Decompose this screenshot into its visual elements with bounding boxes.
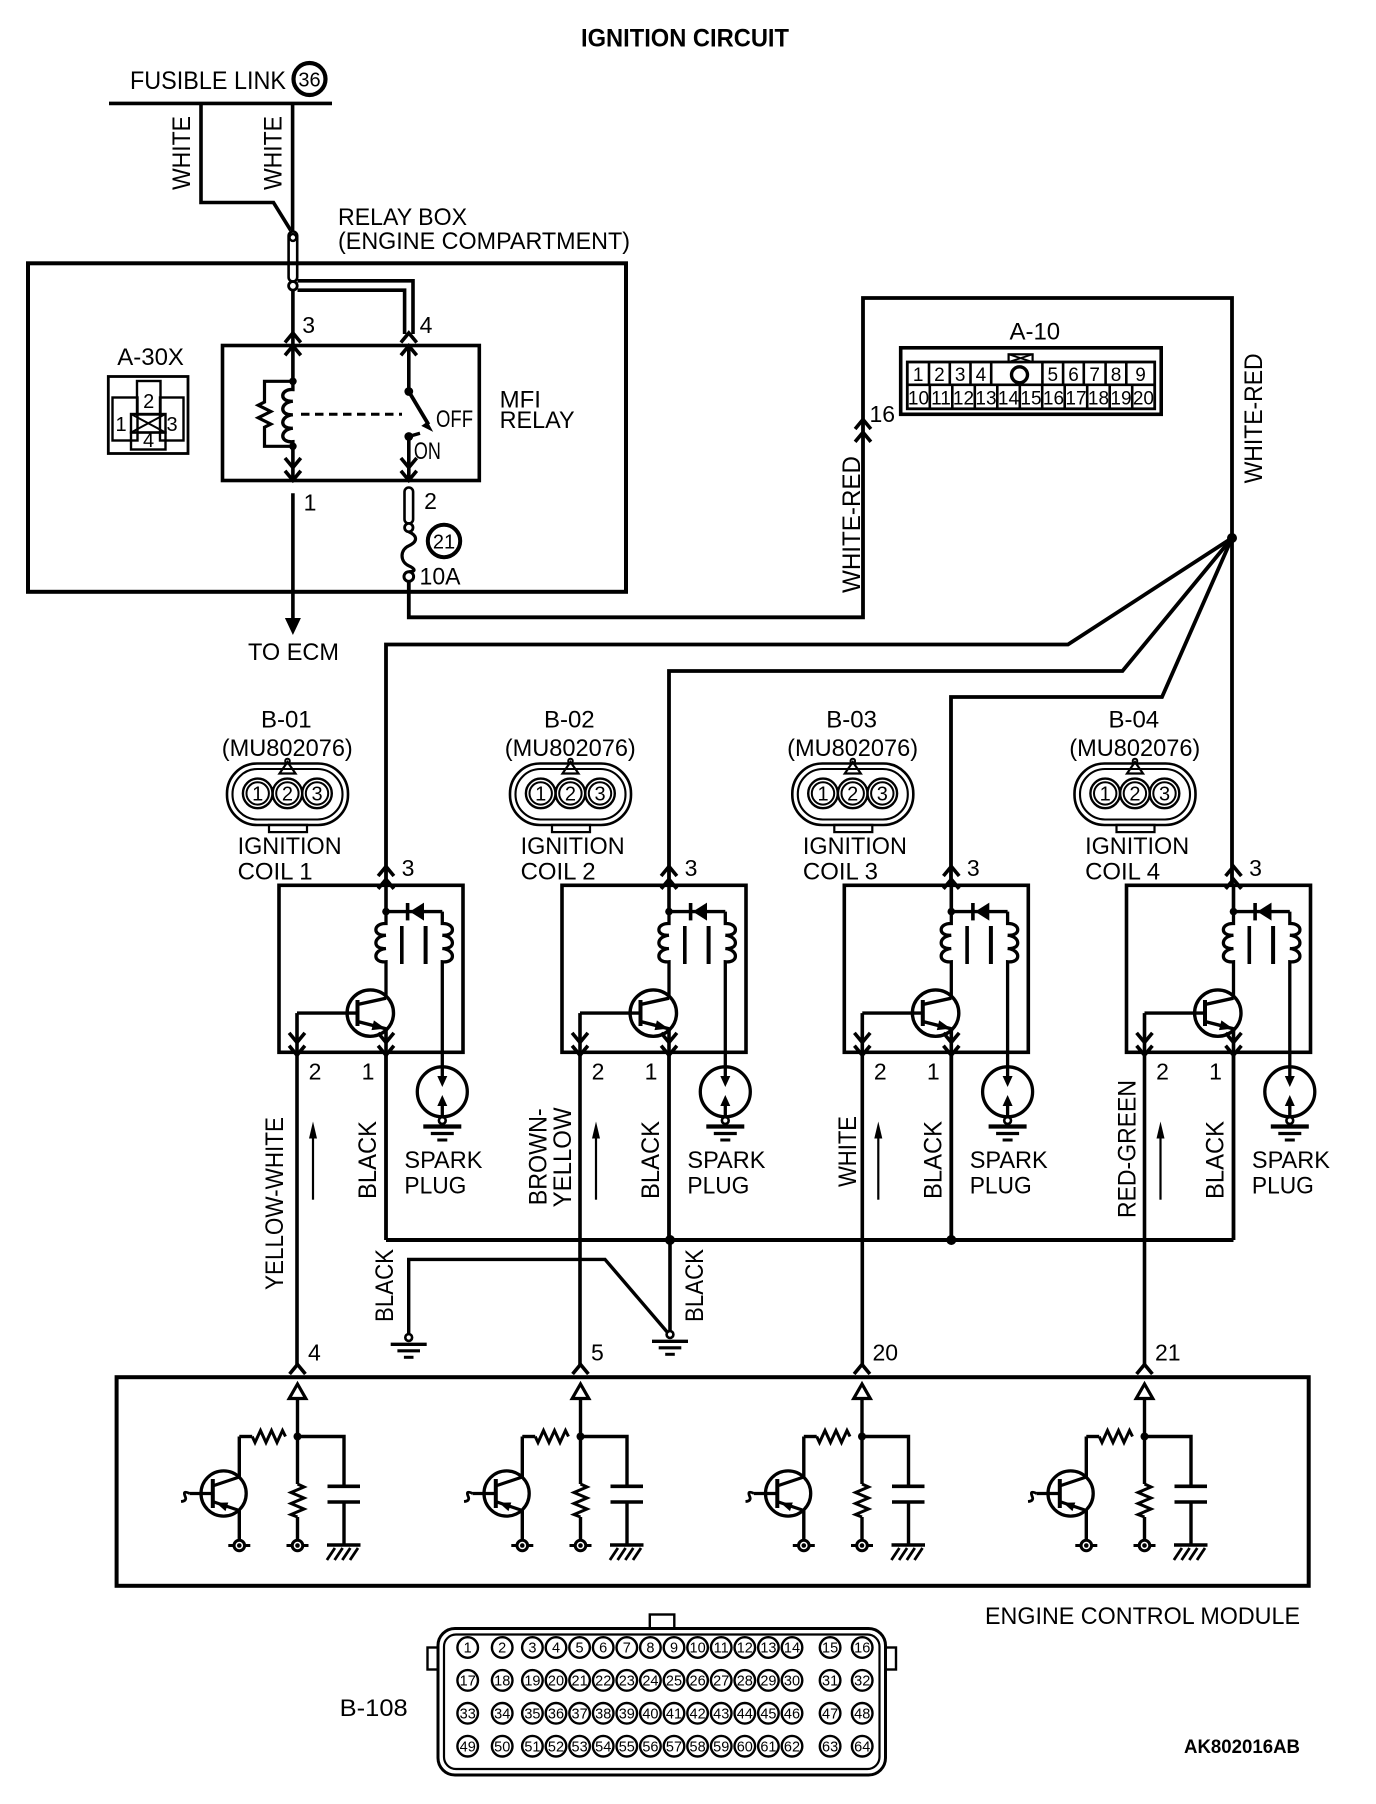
spark plug 4 ground bbox=[1286, 1117, 1293, 1124]
svg-text:WHITE: WHITE bbox=[168, 116, 196, 190]
svg-text:13: 13 bbox=[975, 389, 996, 410]
connector B-04 icon bbox=[1075, 759, 1196, 832]
ECM cell 5 chassis ground bbox=[610, 1543, 644, 1547]
svg-text:20: 20 bbox=[873, 1340, 899, 1366]
svg-text:2: 2 bbox=[143, 391, 154, 413]
svg-text:BLACK: BLACK bbox=[1202, 1121, 1230, 1199]
ECM pin 21 input triangle bbox=[1136, 1384, 1153, 1399]
coil 3 pin 1 arrows bbox=[943, 1046, 959, 1056]
coil 4 internal node bbox=[1232, 885, 1236, 912]
svg-text:COIL 4: COIL 4 bbox=[1085, 858, 1160, 885]
svg-text:52: 52 bbox=[548, 1739, 564, 1755]
spark plug 3 bbox=[983, 1067, 1033, 1117]
svg-text:YELLOW-WHITE: YELLOW-WHITE bbox=[261, 1117, 289, 1290]
svg-text:3: 3 bbox=[166, 414, 177, 436]
connector A-10 top tab bbox=[1009, 354, 1033, 362]
svg-text:3: 3 bbox=[311, 784, 322, 806]
coil 1 pin 3 arrows bbox=[378, 867, 394, 877]
svg-text:3: 3 bbox=[967, 855, 980, 881]
wire into relay pin 3 bbox=[291, 290, 295, 346]
svg-text:2: 2 bbox=[424, 488, 437, 514]
wire coil 4 direction arrow bbox=[1159, 1136, 1161, 1200]
svg-text:25: 25 bbox=[666, 1674, 682, 1690]
svg-text:A-10: A-10 bbox=[1009, 319, 1060, 346]
svg-text:60: 60 bbox=[737, 1739, 753, 1755]
wire branch to ignition coil 2 bbox=[669, 538, 1232, 885]
svg-text:4: 4 bbox=[308, 1340, 321, 1366]
svg-text:1: 1 bbox=[927, 1059, 940, 1085]
ECM cell 4 bias resistor bbox=[296, 1437, 299, 1485]
svg-text:28: 28 bbox=[737, 1674, 753, 1690]
svg-text:2: 2 bbox=[565, 784, 576, 806]
svg-text:4: 4 bbox=[420, 312, 433, 338]
svg-text:YELLOW: YELLOW bbox=[549, 1107, 577, 1207]
svg-text:B-03: B-03 bbox=[826, 706, 877, 733]
svg-text:21: 21 bbox=[433, 532, 455, 554]
svg-text:9: 9 bbox=[1135, 365, 1146, 386]
svg-text:BLACK: BLACK bbox=[354, 1121, 382, 1199]
wire coil 4 pin 2 to ECM bbox=[1143, 1052, 1147, 1366]
svg-text:41: 41 bbox=[666, 1707, 682, 1723]
svg-text:WHITE: WHITE bbox=[834, 1116, 862, 1187]
connector B-108 pins bbox=[457, 1637, 872, 1756]
svg-text:2: 2 bbox=[592, 1059, 605, 1085]
wire coil 4 pin 1 black bbox=[1232, 1052, 1236, 1240]
coil 2 secondary winding bbox=[725, 912, 735, 1067]
wire white 1 from fusible link bbox=[201, 103, 291, 230]
ECM cell 5 transistor emitter ground bbox=[521, 1511, 524, 1541]
svg-text:51: 51 bbox=[524, 1739, 540, 1755]
coil 4 primary winding bbox=[1223, 912, 1233, 999]
terminal below relay pin 2 bbox=[405, 488, 414, 524]
ECM pin 20 arrow bbox=[854, 1365, 870, 1375]
ECM cell 5 bias resistor bbox=[579, 1437, 582, 1485]
svg-text:2: 2 bbox=[1156, 1059, 1169, 1085]
wire coil 1 direction arrow bbox=[312, 1136, 314, 1200]
svg-text:1: 1 bbox=[304, 490, 317, 516]
svg-text:1: 1 bbox=[817, 784, 828, 806]
ECM pin 20 input triangle bbox=[854, 1384, 871, 1399]
svg-text:21: 21 bbox=[1155, 1340, 1181, 1366]
svg-text:49: 49 bbox=[460, 1739, 476, 1755]
ECM pin 21 arrow bbox=[1137, 1365, 1153, 1375]
ECM cell 20 chassis ground bbox=[892, 1543, 926, 1547]
relay pin 1 arrows bbox=[285, 471, 301, 481]
ECM pin 4 input triangle bbox=[289, 1384, 306, 1399]
ECM cell 21 pull resistor bbox=[1099, 1431, 1132, 1443]
relay pin 4 arrows bbox=[401, 333, 417, 343]
svg-text:7: 7 bbox=[1089, 365, 1100, 386]
svg-text:58: 58 bbox=[690, 1739, 706, 1755]
connector B-03 icon bbox=[792, 759, 913, 832]
svg-text:27: 27 bbox=[713, 1674, 729, 1690]
ECM cell 4 pull resistor bbox=[252, 1431, 285, 1443]
svg-text:ENGINE CONTROL MODULE: ENGINE CONTROL MODULE bbox=[985, 1603, 1300, 1630]
ECM cell 20 transistor emitter ground bbox=[802, 1511, 805, 1541]
bus junction coil 3 bbox=[946, 1235, 956, 1245]
svg-text:IGNITION: IGNITION bbox=[238, 833, 342, 860]
relay coil winding bbox=[283, 381, 293, 446]
svg-text:17: 17 bbox=[1065, 389, 1086, 410]
svg-text:SPARK: SPARK bbox=[687, 1147, 765, 1174]
svg-text:(ENGINE COMPARTMENT): (ENGINE COMPARTMENT) bbox=[338, 228, 630, 255]
svg-text:21: 21 bbox=[572, 1674, 588, 1690]
svg-text:55: 55 bbox=[619, 1739, 635, 1755]
svg-text:3: 3 bbox=[528, 1641, 536, 1657]
ECM pin 5 arrow bbox=[573, 1365, 589, 1375]
ECM cell 20 bias resistor bbox=[860, 1437, 863, 1485]
svg-text:3: 3 bbox=[302, 312, 315, 338]
svg-text:20: 20 bbox=[548, 1674, 564, 1690]
svg-text:2: 2 bbox=[874, 1059, 887, 1085]
svg-text:1: 1 bbox=[913, 365, 924, 386]
relay coil node upper bbox=[291, 346, 295, 383]
ECM cell 20 wiring bbox=[860, 1399, 863, 1438]
wire branch to relay pin 4 doubled line bbox=[298, 281, 414, 334]
svg-text:26: 26 bbox=[690, 1674, 706, 1690]
wire coil 3 pin 1 black bbox=[949, 1052, 953, 1240]
coil 2 transformer core bbox=[683, 926, 687, 964]
svg-text:RELAY BOX: RELAY BOX bbox=[338, 204, 467, 231]
spark plug 1 bbox=[417, 1067, 467, 1117]
svg-text:62: 62 bbox=[784, 1739, 800, 1755]
ignition coil 3 box bbox=[844, 885, 1028, 1052]
spark plug 4 bbox=[1265, 1067, 1315, 1117]
fuse element bbox=[402, 532, 416, 572]
svg-text:1: 1 bbox=[645, 1059, 658, 1085]
svg-text:2: 2 bbox=[934, 365, 945, 386]
coil 4 pin 1 arrows bbox=[1226, 1046, 1242, 1056]
svg-text:4: 4 bbox=[143, 430, 154, 452]
svg-text:OFF: OFF bbox=[436, 406, 473, 433]
svg-text:A-30X: A-30X bbox=[117, 344, 184, 371]
svg-text:54: 54 bbox=[595, 1739, 611, 1755]
svg-text:11: 11 bbox=[931, 389, 951, 410]
wire coil 3 direction arrow bbox=[877, 1136, 879, 1200]
connector A-10 pin 16 arrows bbox=[855, 420, 871, 430]
connector A-10 grid bbox=[907, 362, 1154, 409]
coil 3 emitter wire to pin 1 bbox=[949, 1029, 953, 1053]
svg-text:1: 1 bbox=[362, 1059, 375, 1085]
spark plug 2 bbox=[700, 1067, 750, 1117]
wire coil 2 direction arrow bbox=[595, 1136, 597, 1200]
svg-text:3: 3 bbox=[1159, 784, 1170, 806]
svg-text:40: 40 bbox=[642, 1707, 658, 1723]
coil 2 pin 3 arrows bbox=[661, 867, 677, 877]
coil 1 power transistor bbox=[347, 990, 393, 1036]
coil 3 pin 3 arrows bbox=[943, 867, 959, 877]
svg-text:3: 3 bbox=[594, 784, 605, 806]
svg-text:19: 19 bbox=[524, 1674, 540, 1690]
relay switch pivot bbox=[404, 387, 413, 396]
wire coil 2 pin 1 black bbox=[667, 1052, 671, 1240]
svg-text:IGNITION: IGNITION bbox=[1085, 833, 1189, 860]
connector A-10 body bbox=[901, 348, 1161, 415]
fuse circled number 21 bbox=[428, 525, 460, 557]
svg-text:39: 39 bbox=[619, 1707, 635, 1723]
svg-text:2: 2 bbox=[1129, 784, 1140, 806]
svg-text:50: 50 bbox=[494, 1739, 510, 1755]
svg-text:12: 12 bbox=[953, 389, 974, 410]
ECM pin 4 arrow bbox=[290, 1365, 306, 1375]
svg-text:3: 3 bbox=[955, 365, 966, 386]
coil 4 diode bbox=[1234, 910, 1290, 913]
relay switch link dashed bbox=[301, 413, 402, 416]
wire coil 1 pin 2 to ECM bbox=[295, 1052, 299, 1366]
svg-text:46: 46 bbox=[784, 1707, 800, 1723]
ECM cell 4 transistor emitter ground bbox=[238, 1511, 241, 1541]
engine control module box bbox=[117, 1377, 1309, 1586]
svg-text:B-108: B-108 bbox=[340, 1695, 408, 1722]
coil 4 base wire to pin 2 bbox=[1143, 1013, 1147, 1052]
ECM cell 5 capacitor bbox=[581, 1437, 628, 1487]
coil 3 primary winding bbox=[941, 912, 951, 999]
svg-text:RED-GREEN: RED-GREEN bbox=[1114, 1080, 1142, 1218]
svg-text:16: 16 bbox=[1043, 389, 1064, 410]
svg-text:61: 61 bbox=[760, 1739, 776, 1755]
svg-text:12: 12 bbox=[737, 1641, 753, 1657]
svg-text:3: 3 bbox=[685, 855, 698, 881]
wire branch to ignition coil 3 bbox=[951, 538, 1232, 885]
ECM pin 5 input triangle bbox=[572, 1384, 589, 1399]
svg-text:64: 64 bbox=[854, 1739, 870, 1755]
fusible link circled number 36 bbox=[294, 63, 326, 95]
terminal at relay box entry bbox=[289, 232, 298, 282]
svg-text:RELAY: RELAY bbox=[500, 407, 575, 434]
black ground bus bbox=[386, 1238, 1234, 1242]
coil 4 pin 3 arrows bbox=[1226, 867, 1242, 877]
svg-text:PLUG: PLUG bbox=[1252, 1173, 1314, 1200]
ECM cell 5 transistor bbox=[521, 1437, 524, 1478]
svg-text:4: 4 bbox=[552, 1641, 560, 1657]
svg-text:WHITE: WHITE bbox=[260, 116, 288, 190]
svg-text:5: 5 bbox=[576, 1641, 584, 1657]
connector B-04 pin numbers bbox=[1100, 784, 1170, 806]
svg-text:17: 17 bbox=[460, 1674, 476, 1690]
coil 4 transformer core bbox=[1248, 926, 1252, 964]
svg-text:36: 36 bbox=[548, 1707, 564, 1723]
svg-text:29: 29 bbox=[760, 1674, 776, 1690]
svg-text:16: 16 bbox=[870, 401, 896, 427]
coil 1 emitter wire to pin 1 bbox=[384, 1029, 388, 1053]
spark plug 2 ground bbox=[722, 1117, 729, 1124]
svg-text:10: 10 bbox=[908, 389, 929, 410]
svg-text:1: 1 bbox=[535, 784, 546, 806]
ignition coil 1 box bbox=[279, 885, 463, 1052]
svg-text:38: 38 bbox=[595, 1707, 611, 1723]
ground wire black bbox=[409, 1259, 668, 1334]
ground left bbox=[405, 1334, 412, 1341]
svg-text:36: 36 bbox=[298, 70, 320, 92]
svg-text:COIL 1: COIL 1 bbox=[238, 858, 313, 885]
svg-text:B-04: B-04 bbox=[1108, 706, 1159, 733]
svg-text:48: 48 bbox=[854, 1707, 870, 1723]
svg-text:15: 15 bbox=[822, 1641, 838, 1657]
svg-text:15: 15 bbox=[1020, 389, 1041, 410]
coil 4 emitter wire to pin 1 bbox=[1232, 1029, 1236, 1053]
svg-text:2: 2 bbox=[282, 784, 293, 806]
svg-text:20: 20 bbox=[1133, 389, 1154, 410]
coil 1 pin 1 arrows bbox=[378, 1046, 394, 1056]
svg-text:ON: ON bbox=[414, 438, 441, 465]
ECM cell 5 wiring bbox=[579, 1399, 582, 1438]
svg-text:5: 5 bbox=[591, 1340, 604, 1366]
wire coil 2 pin 2 to ECM bbox=[578, 1052, 582, 1366]
svg-text:43: 43 bbox=[713, 1707, 729, 1723]
arrow to ECM bbox=[285, 618, 301, 635]
coil 2 power transistor bbox=[630, 990, 676, 1036]
connector B-02 icon bbox=[510, 759, 631, 832]
svg-text:SPARK: SPARK bbox=[970, 1147, 1048, 1174]
svg-text:14: 14 bbox=[784, 1641, 800, 1657]
svg-text:18: 18 bbox=[494, 1674, 510, 1690]
svg-text:PLUG: PLUG bbox=[970, 1173, 1032, 1200]
ECM cell 21 wiring bbox=[1143, 1399, 1146, 1438]
svg-text:11: 11 bbox=[714, 1641, 729, 1657]
svg-text:10: 10 bbox=[690, 1641, 706, 1657]
ECM cell 4 transistor bbox=[238, 1437, 241, 1478]
ECM cell 20 capacitor bbox=[862, 1437, 909, 1487]
ECM cell 21 transistor bbox=[1085, 1437, 1088, 1478]
svg-text:44: 44 bbox=[737, 1707, 753, 1723]
svg-text:FUSIBLE LINK: FUSIBLE LINK bbox=[130, 67, 286, 95]
relay coil parallel resistor bbox=[258, 381, 293, 446]
wire relay pin 1 to ECM bbox=[291, 493, 295, 618]
ECM cell 4 wiring bbox=[296, 1399, 299, 1438]
coil 2 base wire to pin 2 bbox=[578, 1013, 582, 1052]
svg-text:10A: 10A bbox=[420, 564, 461, 591]
svg-text:8: 8 bbox=[1111, 365, 1122, 386]
connector B-02 pin numbers bbox=[535, 784, 605, 806]
connector A-10 top row pin numbers bbox=[913, 365, 1146, 386]
svg-text:6: 6 bbox=[1068, 365, 1079, 386]
wire coil 1 pin 1 black bbox=[384, 1052, 388, 1240]
coil 3 power transistor bbox=[912, 990, 958, 1036]
coil 2 internal node bbox=[667, 885, 671, 912]
ECM cell 21 chassis ground bbox=[1174, 1543, 1208, 1547]
wire coil 2 black to ground bbox=[668, 1240, 672, 1331]
ECM cell 4 chassis ground bbox=[327, 1543, 361, 1547]
coil 1 transformer core bbox=[400, 926, 404, 964]
wire switch to relay pin 2 bbox=[407, 437, 411, 481]
coil 3 transformer core bbox=[965, 926, 969, 964]
svg-text:1: 1 bbox=[115, 414, 126, 436]
connector A-10 lock circle bbox=[1012, 367, 1028, 383]
svg-text:57: 57 bbox=[666, 1739, 682, 1755]
ignition coil 4 box bbox=[1127, 885, 1311, 1052]
svg-text:22: 22 bbox=[595, 1674, 611, 1690]
junction node white-red bbox=[1227, 533, 1237, 543]
svg-text:42: 42 bbox=[690, 1707, 706, 1723]
ECM cell 20 transistor bbox=[802, 1437, 805, 1478]
relay box outline bbox=[28, 263, 626, 592]
svg-text:16: 16 bbox=[854, 1641, 870, 1657]
ECM cell 4 capacitor bbox=[298, 1437, 345, 1487]
fusible link bus bar bbox=[109, 102, 332, 106]
ECM cell 20 pull resistor bbox=[817, 1431, 850, 1443]
svg-text:COIL 3: COIL 3 bbox=[803, 858, 878, 885]
coil 3 base wire to pin 2 bbox=[860, 1013, 864, 1052]
svg-text:PLUG: PLUG bbox=[404, 1173, 466, 1200]
svg-text:IGNITION CIRCUIT: IGNITION CIRCUIT bbox=[581, 25, 789, 53]
svg-text:B-01: B-01 bbox=[261, 706, 312, 733]
svg-text:AK802016AB: AK802016AB bbox=[1184, 1737, 1300, 1758]
connector B-03 pin numbers bbox=[817, 784, 887, 806]
svg-text:45: 45 bbox=[760, 1707, 776, 1723]
svg-text:3: 3 bbox=[877, 784, 888, 806]
svg-text:BLACK: BLACK bbox=[637, 1121, 665, 1199]
svg-text:34: 34 bbox=[494, 1707, 510, 1723]
relay switch arm bbox=[409, 392, 429, 425]
svg-text:3: 3 bbox=[1249, 855, 1262, 881]
coil 4 pin 2 arrows bbox=[1137, 1046, 1153, 1056]
coil 2 primary winding bbox=[659, 912, 669, 999]
connector A-10 bottom row pin numbers bbox=[908, 389, 1154, 410]
svg-text:5: 5 bbox=[1048, 365, 1059, 386]
svg-text:7: 7 bbox=[623, 1641, 631, 1657]
ECM cell 21 bias resistor bbox=[1143, 1437, 1146, 1485]
svg-text:13: 13 bbox=[760, 1641, 776, 1657]
connector B-108 body bbox=[438, 1629, 886, 1776]
coil 1 base wire to pin 2 bbox=[295, 1013, 299, 1052]
svg-text:SPARK: SPARK bbox=[404, 1147, 482, 1174]
svg-text:23: 23 bbox=[619, 1674, 635, 1690]
coil 4 secondary winding bbox=[1290, 912, 1300, 1067]
coil 4 power transistor bbox=[1195, 990, 1241, 1036]
svg-text:31: 31 bbox=[822, 1674, 838, 1690]
ECM cell 21 capacitor bbox=[1145, 1437, 1192, 1487]
wire relay coil to pin 1 bbox=[291, 446, 295, 480]
connector B-01 pin numbers bbox=[252, 784, 322, 806]
svg-text:1: 1 bbox=[252, 784, 263, 806]
coil 1 internal node bbox=[384, 885, 388, 912]
bus junction coil 2 bbox=[665, 1235, 675, 1245]
svg-text:32: 32 bbox=[854, 1674, 870, 1690]
coil 2 pin 1 arrows bbox=[661, 1046, 677, 1056]
svg-text:4: 4 bbox=[976, 365, 987, 386]
connector A-30X icon bbox=[108, 377, 188, 454]
connector B-01 icon bbox=[227, 759, 348, 832]
wire white 2 from fusible link bbox=[291, 103, 295, 231]
connector B-108 side tabs bbox=[428, 1648, 439, 1670]
ECM cell 5 pull resistor bbox=[535, 1431, 568, 1443]
svg-text:30: 30 bbox=[784, 1674, 800, 1690]
svg-text:1: 1 bbox=[1100, 784, 1111, 806]
spark plug 3 ground bbox=[1004, 1117, 1011, 1124]
ground right bbox=[667, 1331, 674, 1338]
svg-text:47: 47 bbox=[822, 1707, 838, 1723]
svg-text:53: 53 bbox=[572, 1739, 588, 1755]
svg-text:WHITE-RED: WHITE-RED bbox=[1240, 353, 1268, 483]
coil 1 primary winding bbox=[376, 912, 386, 999]
coil 1 secondary winding bbox=[442, 912, 452, 1067]
svg-text:9: 9 bbox=[670, 1641, 678, 1657]
coil 1 diode bbox=[386, 910, 442, 913]
relay coil node lower bbox=[289, 443, 297, 451]
relay pin 2 arrows bbox=[401, 471, 417, 481]
coil 1 pin 2 arrows bbox=[289, 1046, 305, 1056]
svg-text:SPARK: SPARK bbox=[1252, 1147, 1330, 1174]
coil 2 pin 2 arrows bbox=[572, 1046, 588, 1056]
svg-text:18: 18 bbox=[1088, 389, 1109, 410]
coil 3 diode bbox=[951, 910, 1007, 913]
svg-text:WHITE-RED: WHITE-RED bbox=[838, 456, 866, 593]
svg-text:BLACK: BLACK bbox=[919, 1121, 947, 1199]
coil 2 emitter wire to pin 1 bbox=[667, 1029, 671, 1053]
svg-text:TO ECM: TO ECM bbox=[248, 639, 339, 666]
svg-text:33: 33 bbox=[460, 1707, 476, 1723]
svg-text:IGNITION: IGNITION bbox=[521, 833, 625, 860]
